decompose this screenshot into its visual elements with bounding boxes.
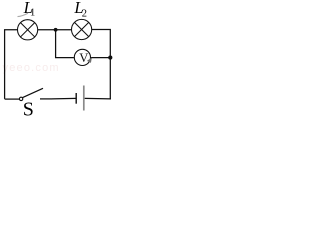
svg-text:V: V [79, 51, 88, 65]
svg-text:2: 2 [82, 8, 87, 19]
wire: bottom-left to switch [5, 98, 20, 100]
wire: switch to battery [52, 97, 76, 100]
node junction dot on top wire [54, 28, 58, 32]
lamp L2 [72, 19, 92, 39]
wire: battery to bottom-right corner [85, 97, 111, 100]
wire: between L1 and L2 [38, 29, 72, 31]
svg-text:yeeo.com: yeeo.com [3, 62, 60, 74]
switch S [19, 88, 52, 100]
label L1 [18, 0, 36, 18]
battery BT1 [76, 86, 84, 111]
wire: voltmeter to right wire [91, 57, 110, 59]
svg-text:1: 1 [30, 7, 35, 18]
node junction dot on right wire [108, 56, 112, 60]
voltmeter U1 [74, 49, 92, 65]
lamp L1 [18, 20, 38, 40]
wire: voltmeter branch vertical from junction [56, 30, 74, 58]
wire: L2 to top-right corner and right side down [92, 30, 111, 100]
wire: top-left segment [5, 30, 18, 99]
label L2 [73, 0, 87, 19]
svg-text:S: S [23, 99, 34, 116]
